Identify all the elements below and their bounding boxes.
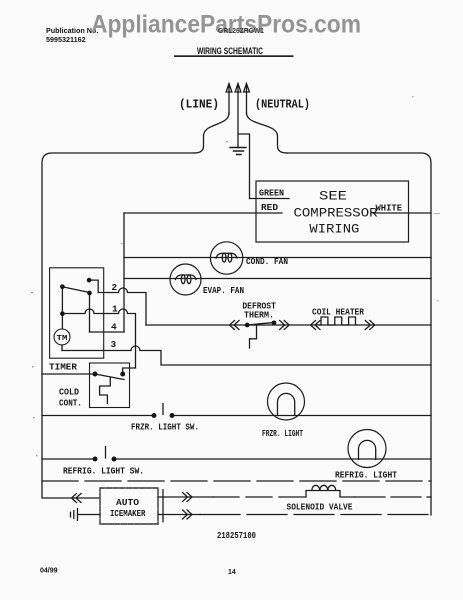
svg-text:(LINE): (LINE) <box>179 98 219 112</box>
svg-text:RED: RED <box>261 202 278 213</box>
svg-text:CONT.: CONT. <box>59 398 82 409</box>
svg-text:2: 2 <box>112 282 118 293</box>
svg-text:WHITE: WHITE <box>376 203 403 214</box>
svg-text:REFRIG. LIGHT SW.: REFRIG. LIGHT SW. <box>63 466 144 477</box>
svg-text:SOLENOID VALVE: SOLENOID VALVE <box>287 502 353 513</box>
svg-text:(NEUTRAL): (NEUTRAL) <box>255 98 310 112</box>
svg-text:TIMER: TIMER <box>49 362 77 373</box>
svg-text:GRL26ZRGW1: GRL26ZRGW1 <box>218 28 264 35</box>
svg-text:COIL HEATER: COIL HEATER <box>312 307 364 318</box>
svg-text:AUTO: AUTO <box>116 497 139 508</box>
svg-text:FRZR. LIGHT: FRZR. LIGHT <box>262 428 303 439</box>
svg-text:WIRING: WIRING <box>309 222 359 237</box>
svg-text:14: 14 <box>228 569 236 576</box>
svg-text:218257100: 218257100 <box>217 530 256 541</box>
svg-text:5995321162: 5995321162 <box>46 35 86 44</box>
svg-text:SEE: SEE <box>319 189 347 204</box>
svg-text:EVAP. FAN: EVAP. FAN <box>203 285 244 296</box>
svg-text:FRZR. LIGHT SW.: FRZR. LIGHT SW. <box>131 422 199 433</box>
svg-text:COMPRESSOR: COMPRESSOR <box>294 206 378 221</box>
svg-text:04/99: 04/99 <box>40 568 58 575</box>
svg-text:THERM.: THERM. <box>244 310 274 321</box>
svg-text:COLD: COLD <box>59 387 79 398</box>
svg-text:GREEN: GREEN <box>259 188 284 199</box>
svg-text:COND. FAN: COND. FAN <box>246 256 288 267</box>
svg-text:TM: TM <box>57 335 69 343</box>
svg-text:ICEMAKER: ICEMAKER <box>110 508 146 519</box>
svg-text:4: 4 <box>111 322 117 333</box>
svg-text:REFRIG. LIGHT: REFRIG. LIGHT <box>335 470 397 481</box>
svg-text:3: 3 <box>111 339 117 350</box>
svg-text:1: 1 <box>112 304 118 315</box>
